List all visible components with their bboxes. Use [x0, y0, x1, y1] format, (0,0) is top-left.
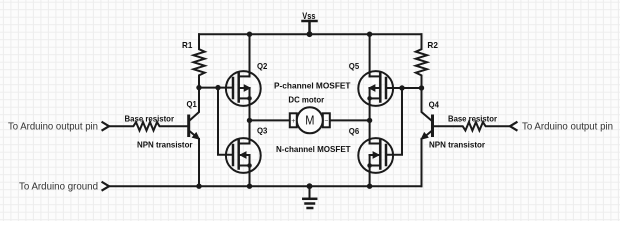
wire motor right — [330, 119, 370, 121]
svg-text:NPN transistor: NPN transistor — [429, 140, 486, 150]
resistor R1 — [194, 34, 205, 87]
wire top rail — [199, 33, 422, 35]
svg-text:Base resistor: Base resistor — [448, 114, 498, 124]
svg-text:To Arduino ground: To Arduino ground — [19, 181, 98, 193]
svg-text:Q3: Q3 — [257, 126, 268, 136]
svg-text:Q4: Q4 — [429, 100, 440, 110]
wire motor left — [250, 119, 290, 121]
node top Q2 — [247, 32, 252, 37]
transistor Q1 — [189, 88, 200, 187]
mosfet Q6 — [358, 120, 393, 186]
node motor left — [247, 118, 252, 123]
svg-text:P-channel MOSFET: P-channel MOSFET — [274, 80, 351, 90]
svg-text:NPN transistor: NPN transistor — [137, 140, 193, 150]
node ground Q6 — [367, 184, 372, 189]
node gate tie left — [215, 85, 220, 90]
power Vss — [303, 21, 317, 34]
svg-text:Base resistor: Base resistor — [125, 114, 175, 124]
node chevron output right — [510, 122, 517, 130]
wire gate tie right — [386, 88, 402, 155]
resistor base right — [433, 122, 511, 130]
node top Vss — [307, 31, 313, 37]
node ground center — [307, 183, 313, 189]
motor M1 — [290, 107, 330, 133]
svg-text:Q5: Q5 — [349, 61, 360, 71]
node chevron ground left — [103, 182, 110, 190]
svg-text:R1: R1 — [182, 40, 193, 50]
wire bottom ground rail — [109, 185, 422, 187]
svg-text:Vss: Vss — [302, 11, 315, 22]
junction dots — [196, 31, 424, 189]
svg-text:Q6: Q6 — [349, 126, 360, 136]
wire gate tie left — [218, 88, 233, 155]
node top Q5 — [367, 32, 372, 37]
resistor base left — [109, 122, 189, 130]
wire gate node left — [199, 87, 233, 89]
node R2 bottom — [419, 85, 424, 90]
node motor right — [367, 118, 372, 123]
node R1 bottom — [196, 85, 201, 90]
mosfet Q3 — [226, 120, 261, 186]
mosfet Q5 — [358, 34, 393, 120]
transistor Q4 — [421, 88, 432, 186]
svg-text:To Arduino output pin: To Arduino output pin — [522, 121, 613, 133]
svg-text:M: M — [305, 113, 314, 127]
node ground Q1 — [196, 184, 201, 189]
svg-text:To Arduino output pin: To Arduino output pin — [8, 121, 98, 133]
resistor R2 — [416, 34, 427, 88]
svg-text:−: − — [324, 118, 328, 125]
svg-text:+: + — [291, 118, 295, 125]
svg-text:Q2: Q2 — [257, 61, 268, 71]
node ground Q3 — [247, 184, 252, 189]
node chevron output left — [103, 122, 110, 130]
svg-text:R2: R2 — [427, 40, 438, 50]
mosfet Q2 — [226, 34, 261, 120]
ground — [303, 186, 316, 208]
svg-text:Q1: Q1 — [187, 99, 198, 109]
node gate tie right — [399, 85, 404, 90]
svg-text:N-channel MOSFET: N-channel MOSFET — [276, 144, 351, 154]
svg-text:DC motor: DC motor — [288, 94, 324, 104]
wire gate node right — [386, 87, 422, 89]
